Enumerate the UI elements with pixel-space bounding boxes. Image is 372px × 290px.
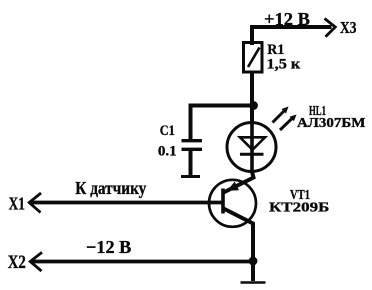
svg-text:К датчику: К датчику xyxy=(75,178,146,198)
svg-text:X3: X3 xyxy=(340,18,356,37)
svg-text:1,5 к: 1,5 к xyxy=(267,57,302,73)
svg-text:0.1: 0.1 xyxy=(158,144,177,160)
svg-text:АЛ307БМ: АЛ307БМ xyxy=(297,116,365,131)
svg-text:X1: X1 xyxy=(9,194,25,214)
svg-text:+12 В: +12 В xyxy=(264,9,310,29)
svg-text:−12 В: −12 В xyxy=(86,237,131,257)
svg-text:X2: X2 xyxy=(8,253,26,273)
svg-text:C1: C1 xyxy=(160,123,175,139)
svg-text:КТ209Б: КТ209Б xyxy=(269,201,329,216)
